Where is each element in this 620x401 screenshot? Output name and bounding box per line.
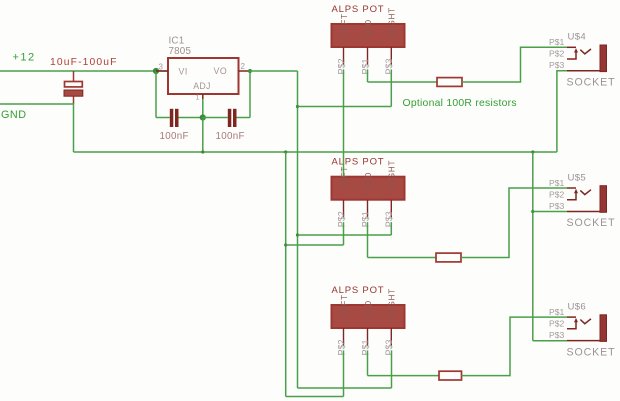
svg-text:U$5: U$5: [568, 172, 587, 183]
socket U$5 pin P$1 stub: [567, 187, 576, 189]
junction +12 at C1/VI: [153, 68, 159, 74]
potentiometer POT3 pin P$2: [343, 328, 345, 346]
resistor R2 body: [436, 253, 461, 262]
svg-text:IC1: IC1: [169, 35, 185, 46]
svg-text:P$1: P$1: [360, 211, 370, 227]
IC1 ADJ pin stub: [202, 94, 204, 99]
svg-text:SOCKET: SOCKET: [567, 77, 616, 89]
svg-text:LEFT: LEFT: [340, 166, 349, 189]
wire POT2 wiper to R2: [367, 222, 369, 257]
wire R1 to U$4 tip: [462, 47, 567, 82]
wire POT3 wiper to R3: [367, 350, 369, 375]
socket U$4 switch arrow: [574, 48, 578, 52]
svg-text:P$3: P$3: [384, 211, 394, 227]
wire POT2 LEFT to GND chain: [343, 222, 345, 245]
wire +5V to POT3 RIGHT: [298, 387, 392, 389]
wire VI junction to C2: [155, 71, 157, 118]
svg-text:LEFT: LEFT: [340, 294, 349, 317]
capacitor C3 plates: [228, 109, 232, 127]
svg-text:P$2: P$2: [549, 318, 565, 328]
voltage regulator IC1 body: [168, 58, 239, 94]
junction GND bus at pot chain: [284, 150, 287, 153]
svg-text:7805: 7805: [169, 46, 192, 57]
svg-text:P$1: P$1: [360, 58, 370, 74]
wire GND chain to POT3 LEFT: [286, 396, 344, 398]
svg-text:RIGHT: RIGHT: [388, 160, 397, 189]
svg-text:P$1: P$1: [360, 339, 370, 355]
socket U$5 pin P$2 stub: [567, 193, 576, 200]
wire VO output net: [249, 70, 298, 72]
wire GND chain to POT2 LEFT: [286, 244, 344, 246]
svg-text:MID: MID: [364, 19, 373, 36]
svg-text:P$2: P$2: [336, 339, 346, 355]
svg-text:U$6: U$6: [568, 302, 587, 313]
socket U$6 pin P$1 stub: [567, 316, 576, 318]
capacitor C3 right lead: [237, 117, 251, 119]
svg-text:ALPS POT: ALPS POT: [332, 4, 385, 15]
svg-text:P$3: P$3: [549, 201, 565, 211]
svg-text:P$3: P$3: [549, 60, 565, 70]
capacitor C1 positive plate: [65, 82, 83, 87]
socket U$6 pin P$2 stub: [567, 322, 576, 329]
resistor R1 body: [437, 78, 462, 87]
socket U$4 pin P$2 stub: [567, 52, 576, 59]
wire POT2 wiper to R2 left lead: [368, 257, 437, 259]
wire POT2 RIGHT to +5V: [390, 222, 392, 235]
capacitor C1 negative plate: [64, 90, 83, 96]
wire GND to U$5 sleeve: [533, 211, 567, 213]
capacitor C3 left lead: [203, 117, 228, 119]
svg-text:P$3: P$3: [384, 58, 394, 74]
capacitor C1 top lead: [73, 71, 75, 82]
svg-text:P$2: P$2: [336, 58, 346, 74]
svg-text:P$1: P$1: [549, 37, 565, 47]
svg-text:+12: +12: [13, 52, 36, 64]
svg-text:VI: VI: [179, 67, 188, 77]
wire R2 to U$5 tip: [461, 188, 567, 258]
potentiometer POT2 pin P$1: [367, 200, 369, 218]
socket U$6 sleeve bar: [600, 315, 607, 342]
junction GND bus at caps: [201, 150, 204, 153]
resistor R3 body: [439, 371, 462, 380]
wire +5V to POT1 RIGHT: [298, 106, 392, 108]
wire GND riser to U$4 sleeve: [557, 71, 567, 152]
socket U$4 pin P$1 stub: [567, 46, 576, 48]
svg-text:P$2: P$2: [336, 211, 346, 227]
svg-text:GND: GND: [1, 109, 27, 121]
junction VO at C3: [248, 69, 252, 73]
socket U$6 pin P$3 stub: [567, 340, 600, 342]
potentiometer POT3 body: [332, 305, 405, 328]
svg-text:ADJ: ADJ: [193, 81, 211, 91]
svg-text:Optional 100R resistors: Optional 100R resistors: [403, 98, 517, 109]
socket U$4 sleeve bar: [600, 45, 607, 72]
wire POT1 RIGHT to +5V: [390, 69, 392, 106]
socket U$5 pin P$3 stub: [567, 211, 600, 213]
potentiometer POT2 pin P$2: [343, 200, 345, 218]
svg-text:100nF: 100nF: [160, 131, 189, 142]
socket U$6 switch arrow: [574, 318, 578, 322]
svg-text:MID: MID: [364, 300, 373, 317]
wire ADJ to GND junction: [202, 99, 204, 118]
svg-text:P$1: P$1: [549, 178, 565, 188]
socket U$5 sleeve bar: [600, 186, 607, 213]
capacitor C2 left lead: [156, 117, 170, 119]
wire POT3 RIGHT to +5V: [391, 350, 393, 388]
svg-text:P$3: P$3: [384, 339, 394, 355]
junction +5V at POT2 RIGHT: [296, 233, 299, 236]
svg-text:RIGHT: RIGHT: [388, 288, 397, 317]
svg-text:10uF-100uF: 10uF-100uF: [50, 57, 118, 68]
capacitor C2 right lead: [179, 117, 203, 119]
wire GND bus horizontal: [74, 151, 557, 153]
wire POT3 wiper to R3 left lead: [368, 375, 440, 377]
socket U$5 switch arrow: [574, 189, 578, 193]
capacitor C2 plates: [170, 109, 174, 127]
socket U$4 tip contact: [580, 49, 591, 54]
junction C2/C3/ADJ: [200, 114, 206, 120]
wire +12 input net: [0, 70, 168, 72]
potentiometer POT1 body: [332, 24, 405, 47]
svg-text:SOCKET: SOCKET: [567, 346, 616, 358]
IC1 pin 3 stub: [156, 70, 168, 72]
svg-text:RIGHT: RIGHT: [388, 7, 397, 36]
svg-text:VO: VO: [214, 66, 228, 76]
wire POT1 wiper to R1 left lead: [368, 81, 438, 83]
junction GND at U$5 sleeve: [531, 210, 534, 213]
svg-text:ALPS POT: ALPS POT: [332, 285, 385, 296]
wire POT3 LEFT to GND chain: [343, 350, 345, 396]
potentiometer POT2 pin P$3: [390, 200, 392, 218]
wire +5V rail vertical: [297, 71, 299, 388]
svg-text:2: 2: [241, 62, 246, 71]
svg-text:1: 1: [196, 95, 200, 102]
svg-text:SOCKET: SOCKET: [567, 217, 616, 229]
junction +5V at POT1 RIGHT: [296, 105, 299, 108]
IC1 pin 2 stub: [239, 70, 250, 72]
potentiometer POT3 pin P$3: [390, 328, 392, 346]
svg-text:100nF: 100nF: [216, 131, 245, 142]
potentiometer POT1 pin P$1: [367, 47, 369, 65]
svg-text:P$2: P$2: [549, 189, 565, 199]
socket U$5 tip contact: [580, 190, 591, 195]
wire POT1 LEFT down to POT2: [343, 69, 345, 176]
svg-text:3: 3: [159, 62, 164, 71]
svg-text:ALPS POT: ALPS POT: [332, 157, 385, 168]
wire GND drop to U$5/U$6 sleeves: [532, 152, 534, 341]
potentiometer POT1 pin P$3: [390, 47, 392, 65]
junction GND bus at socket drop: [531, 150, 534, 153]
wire GND input net: [0, 104, 74, 152]
svg-text:LEFT: LEFT: [340, 13, 349, 36]
svg-text:P$2: P$2: [549, 49, 565, 59]
wire GND chain vertical to pot LEFT pins: [285, 152, 287, 397]
wire caps to GND bus: [202, 118, 204, 153]
wire POT1 wiper to R1: [367, 69, 369, 82]
wire R3 to U$6 tip: [462, 317, 568, 376]
potentiometer POT2 body: [332, 177, 405, 200]
capacitor C1 bottom lead: [73, 96, 75, 104]
wire +5V to POT2 RIGHT: [298, 234, 392, 236]
wire C3 to VO net: [249, 71, 251, 118]
svg-text:P$3: P$3: [549, 330, 565, 340]
svg-text:U$4: U$4: [568, 32, 587, 43]
potentiometer POT3 pin P$1: [367, 328, 369, 346]
socket U$4 pin P$3 stub: [567, 70, 600, 72]
socket U$6 tip contact: [580, 319, 591, 324]
potentiometer POT1 pin P$2: [343, 47, 345, 65]
svg-text:MID: MID: [364, 172, 373, 189]
svg-text:P$1: P$1: [549, 307, 565, 317]
wire GND to U$6 sleeve: [533, 340, 567, 342]
junction GND chain at POT2: [284, 243, 287, 246]
